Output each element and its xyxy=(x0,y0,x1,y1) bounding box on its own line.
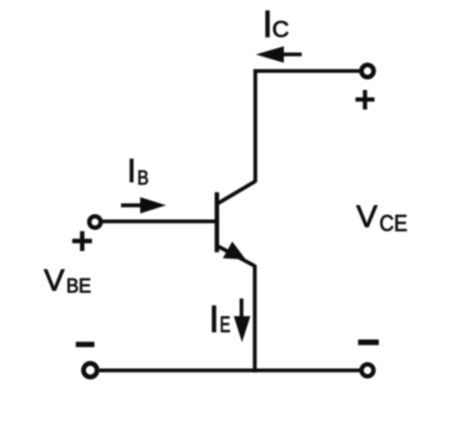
arrow: Ib current arrow (pointing right) xyxy=(121,197,166,213)
svg-text:CE: CE xyxy=(379,210,407,236)
wire: collector diagonal into transistor xyxy=(217,181,256,204)
arrow: Ie current arrow (pointing down) xyxy=(234,299,251,343)
sign: minus at bottom-left terminal xyxy=(76,342,94,347)
svg-text:E: E xyxy=(220,312,231,337)
wire: emitter vertical xyxy=(253,265,257,372)
svg-text:C: C xyxy=(272,16,289,42)
svg-text:V: V xyxy=(356,198,378,234)
terminal: base open circle (left) xyxy=(89,216,100,227)
svg-text:BE: BE xyxy=(66,276,91,298)
transistor Q1: emitter arrowhead xyxy=(225,244,244,259)
sign: minus at bottom-right terminal xyxy=(359,340,379,345)
wire: top collector horizontal xyxy=(254,69,360,73)
terminal: collector-return open circle (bottom right) xyxy=(362,364,374,376)
terminal: emitter-return open circle (bottom left) xyxy=(84,363,98,377)
transistor Q1: base bar xyxy=(215,192,219,252)
wire: collector vertical xyxy=(253,69,257,182)
sign: plus at collector terminal xyxy=(356,90,375,110)
svg-text:I: I xyxy=(127,152,136,189)
svg-text:I: I xyxy=(262,4,273,46)
terminal: collector open circle (top right) xyxy=(361,65,373,77)
wire: emitter diagonal out of transistor xyxy=(217,246,255,266)
svg-text:B: B xyxy=(137,166,149,189)
wire: base horizontal xyxy=(103,219,217,223)
wire: bottom horizontal xyxy=(100,368,360,372)
svg-text:V: V xyxy=(44,263,65,298)
svg-text:I: I xyxy=(209,299,220,341)
arrow: Ic current arrow (pointing left) xyxy=(256,46,302,62)
sign: plus at base terminal xyxy=(72,231,92,251)
